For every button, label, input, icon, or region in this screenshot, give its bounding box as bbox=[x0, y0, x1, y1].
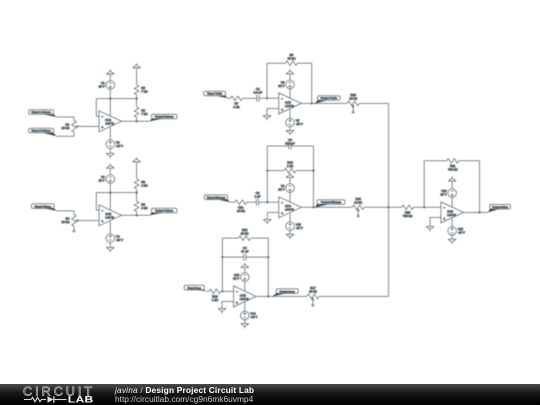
svg-text:1 kΩ: 1 kΩ bbox=[233, 105, 240, 109]
voltage source V2 -15V bbox=[106, 140, 123, 149]
wire R2 top lead bbox=[136, 99, 138, 108]
credit line 2 bbox=[115, 394, 253, 404]
svg-text:500 pF: 500 pF bbox=[285, 141, 295, 145]
svg-text:-15 V: -15 V bbox=[116, 238, 123, 242]
wire feedback top right bbox=[459, 160, 480, 162]
wire V+ power pin bbox=[451, 197, 453, 208]
wire R5 bottom lead bbox=[136, 211, 138, 215]
wire V- power pin bbox=[289, 109, 291, 118]
wire V- power pin bbox=[109, 127, 111, 140]
wiper of R17 bbox=[312, 297, 315, 306]
wire output Mixer bbox=[463, 211, 487, 213]
wire V4 to ground bbox=[109, 243, 111, 248]
wire R3 bottom lead bbox=[136, 95, 138, 99]
potentiometer R19 10k bbox=[352, 197, 364, 210]
ground above R6 bbox=[133, 157, 141, 162]
svg-text:-15 V: -15 V bbox=[250, 315, 257, 319]
wire R18 to bus bbox=[359, 102, 388, 104]
credit line 1 bbox=[115, 385, 254, 395]
svg-text:-15 V: -15 V bbox=[296, 122, 303, 126]
svg-text:Vinput 2 Balance: Vinput 2 Balance bbox=[31, 130, 51, 133]
svg-text:-15 V: -15 V bbox=[296, 226, 303, 230]
junction output/feedback bbox=[136, 214, 138, 216]
wire output Midrange bbox=[301, 206, 352, 208]
potentiometer R1 10k bbox=[61, 120, 76, 132]
svg-text:10 kΩ: 10 kΩ bbox=[287, 57, 296, 61]
svg-text:10 kΩ: 10 kΩ bbox=[237, 209, 246, 213]
wire R6 bottom lead bbox=[136, 189, 138, 193]
junction V3/feedback bbox=[109, 192, 111, 194]
voltage source V4 -15V bbox=[106, 234, 123, 243]
wire up to feedback bbox=[266, 63, 268, 98]
junction output/feedback bbox=[312, 206, 314, 208]
wire wiper to non-inverting input bbox=[78, 125, 99, 127]
wire mixing bus vertical bbox=[388, 103, 390, 296]
svg-text:15 V: 15 V bbox=[278, 188, 284, 192]
capacitor C1 6.8nF bbox=[254, 87, 263, 102]
wire input to R7 bbox=[228, 97, 231, 99]
wire V+ power pin bbox=[109, 99, 111, 118]
svg-text:15 V: 15 V bbox=[99, 179, 105, 183]
wire C1 to inverting input bbox=[259, 97, 279, 99]
flag Voutput Bass bbox=[272, 289, 298, 297]
ground above V13 bbox=[241, 263, 249, 268]
svg-text:10 kΩ: 10 kΩ bbox=[241, 231, 250, 235]
ground at non-inverting input bbox=[263, 220, 271, 225]
potentiometer R4 10k bbox=[61, 215, 76, 227]
ground above V5 bbox=[286, 69, 294, 74]
logo diode bbox=[48, 396, 55, 402]
wire output Treble bbox=[301, 102, 347, 104]
wire R7 to C1 bbox=[242, 97, 256, 99]
wire non-inverting input to ground bbox=[430, 218, 441, 227]
capacitor C4 47nF bbox=[241, 246, 249, 261]
wire R12 branch left bbox=[267, 170, 284, 172]
ground below V10 bbox=[286, 234, 294, 239]
wire R2 bottom lead bbox=[136, 117, 138, 121]
flag Vinput Bass bbox=[184, 285, 206, 291]
wire non-inverting input to ground bbox=[267, 109, 279, 116]
voltage source V13 15V bbox=[233, 273, 249, 282]
wire V+ power pin bbox=[244, 281, 246, 292]
wire feedback to inverting input bbox=[96, 193, 99, 211]
ground above V15 bbox=[448, 177, 456, 182]
voltage source V10 -15V bbox=[286, 222, 303, 231]
svg-text:Voutput Bass: Voutput Bass bbox=[280, 290, 296, 293]
resistor R16 10k bbox=[239, 228, 251, 241]
wire ground to V3 bbox=[109, 168, 111, 175]
svg-text:15 V: 15 V bbox=[99, 85, 105, 89]
wire V16 to ground bbox=[451, 235, 453, 239]
capacitor C2 1nF bbox=[254, 191, 260, 206]
op-amp OA5 LM741 bbox=[234, 286, 256, 307]
ground at non-inverting input bbox=[263, 116, 271, 121]
svg-text:7 kΩ: 7 kΩ bbox=[141, 112, 148, 116]
ground at non-inverting input bbox=[426, 227, 434, 232]
wiper of R18 bbox=[352, 104, 355, 113]
wire input to pot top bbox=[73, 211, 75, 215]
svg-text:Vinput 1 Balance: Vinput 1 Balance bbox=[31, 111, 51, 114]
wire ground to V15 bbox=[451, 181, 453, 189]
potentiometer R17 10k bbox=[307, 286, 319, 299]
junction C4/right vertical bbox=[267, 256, 269, 258]
voltage source V3 15V bbox=[99, 175, 115, 184]
ground above V1 bbox=[106, 70, 114, 75]
wire V6 to ground bbox=[289, 127, 291, 131]
wire R17 to bus bbox=[319, 295, 389, 297]
wire V2 to ground bbox=[109, 149, 111, 154]
svg-text:LM741: LM741 bbox=[105, 122, 115, 126]
wire up to feedback bbox=[266, 146, 268, 202]
junction output/feedback bbox=[311, 102, 313, 104]
svg-text:LAB: LAB bbox=[68, 394, 94, 404]
op-amp OA1 LM741 bbox=[99, 111, 122, 132]
wire V+ power pin bbox=[289, 89, 291, 100]
svg-text:1 kΩ: 1 kΩ bbox=[287, 164, 294, 168]
svg-text:LM741: LM741 bbox=[447, 213, 457, 217]
wire input1 to pot top bbox=[73, 117, 75, 120]
flag Voutput Midrange bbox=[315, 200, 345, 208]
junction V1/feedback bbox=[109, 98, 111, 100]
wire V1 to feedback node bbox=[109, 89, 111, 98]
wire C2 to inverting input bbox=[259, 201, 279, 203]
resistor R20 750k bbox=[402, 205, 414, 218]
wire ground to V5 bbox=[289, 74, 291, 80]
svg-text:47 nF: 47 nF bbox=[241, 249, 249, 253]
junction R3/R2/feedback bbox=[136, 98, 138, 100]
svg-text:-15 V: -15 V bbox=[458, 231, 465, 235]
svg-text:1 kΩ: 1 kΩ bbox=[141, 206, 148, 210]
wire feedback horizontal bbox=[96, 192, 136, 194]
svg-text:10 kΩ: 10 kΩ bbox=[349, 97, 358, 101]
ground below V6 bbox=[286, 131, 294, 136]
op-amp OA6 LM741 bbox=[441, 202, 464, 223]
svg-text:6.8 nF: 6.8 nF bbox=[254, 91, 263, 95]
wire V- power pin bbox=[289, 213, 291, 222]
wire R16 branch right bbox=[251, 237, 269, 239]
svg-text:Voutput Balance: Voutput Balance bbox=[155, 116, 174, 119]
junction R12/right vertical bbox=[312, 170, 314, 172]
svg-text:Voutput Treble: Voutput Treble bbox=[320, 97, 337, 100]
svg-text:15 V: 15 V bbox=[278, 84, 284, 88]
CircuitLab logo bbox=[0, 384, 110, 405]
wire output Volume bbox=[122, 214, 150, 216]
wire up to feedback bbox=[221, 238, 223, 291]
wire R12 branch right bbox=[296, 170, 314, 172]
svg-text:Voutput Midrange: Voutput Midrange bbox=[321, 201, 342, 204]
voltage source V6 -15V bbox=[286, 118, 303, 127]
wire R19 to bus bbox=[364, 206, 388, 208]
wire ground to V1 bbox=[109, 74, 111, 81]
resistor R12 1k bbox=[284, 160, 296, 173]
wire input to R15 bbox=[207, 290, 209, 292]
junction input node bbox=[266, 201, 268, 203]
flag Voutput Balance bbox=[149, 114, 177, 121]
wire feedback up bbox=[423, 161, 425, 208]
wire input horizontal bbox=[56, 210, 74, 212]
svg-text:15 V: 15 V bbox=[440, 193, 446, 197]
wire V+ power pin bbox=[289, 192, 291, 203]
wire feedback left bbox=[267, 62, 285, 64]
wire V10 to ground bbox=[289, 231, 291, 235]
wire R6 top lead bbox=[136, 162, 138, 179]
wire non-inverting input to ground bbox=[222, 302, 234, 309]
wire C4 branch right bbox=[246, 256, 268, 258]
svg-text:Voutput Mixer: Voutput Mixer bbox=[492, 206, 508, 209]
voltage source V5 15V bbox=[278, 80, 294, 89]
flag Voutput Volume bbox=[149, 208, 177, 215]
svg-text:10 kΩ: 10 kΩ bbox=[61, 126, 70, 130]
junction R6/R5/feedback bbox=[136, 192, 138, 194]
wire R5 top lead bbox=[136, 193, 138, 202]
wire feedback right bbox=[297, 62, 311, 64]
flag Vinput 1 Balance bbox=[29, 110, 57, 117]
wire C3 branch right bbox=[291, 145, 313, 147]
wire output Balance bbox=[122, 120, 150, 122]
wire output Bass bbox=[256, 295, 307, 297]
wire V- power pin bbox=[451, 218, 453, 226]
wire feedback horizontal bbox=[96, 98, 136, 100]
wire C3 branch left bbox=[267, 145, 289, 147]
resistor R8 10k bbox=[285, 53, 297, 66]
svg-text:7 kΩ: 7 kΩ bbox=[141, 89, 148, 93]
wire C4 branch left bbox=[222, 256, 243, 258]
voltage source V1 15V bbox=[99, 81, 115, 90]
svg-text:Voutput Volume: Voutput Volume bbox=[155, 210, 174, 213]
junction input node bbox=[266, 97, 268, 99]
resistor R5 1k bbox=[134, 201, 148, 211]
svg-text:1 kΩ: 1 kΩ bbox=[212, 298, 219, 302]
svg-text:10 kΩ: 10 kΩ bbox=[354, 201, 363, 205]
wire bus to R20 bbox=[389, 206, 402, 208]
junction bus/midrange bbox=[387, 206, 389, 208]
wire R11 to C2 bbox=[247, 201, 257, 203]
resistor R6 1k bbox=[134, 179, 148, 189]
ground below V16 bbox=[448, 239, 456, 244]
wire V3 to feedback node bbox=[109, 183, 111, 192]
ground at non-inverting input bbox=[218, 309, 226, 314]
svg-text:Vinput Treble: Vinput Treble bbox=[207, 93, 223, 96]
wire ground to V13 bbox=[244, 268, 246, 273]
wiper of R4 bbox=[75, 219, 78, 222]
wire V14 to ground bbox=[244, 320, 246, 324]
junction C4/left vertical bbox=[221, 256, 223, 258]
op-amp OA4 LM741 bbox=[279, 197, 302, 218]
svg-text:1 nF: 1 nF bbox=[254, 195, 260, 199]
junction output/feedback bbox=[478, 211, 480, 213]
wire input1 horizontal bbox=[57, 116, 74, 118]
wire R16 branch left bbox=[222, 237, 238, 239]
svg-text:Vinput Bass: Vinput Bass bbox=[187, 287, 201, 290]
wire feedback down to output bbox=[479, 161, 481, 213]
svg-text:LM741: LM741 bbox=[285, 208, 295, 212]
wire feedback to inverting input bbox=[96, 99, 99, 117]
wire feedback down to output bbox=[267, 238, 269, 296]
flag Vinput Volume bbox=[32, 204, 57, 211]
capacitor C3 500pF bbox=[285, 138, 295, 149]
svg-text:-15 V: -15 V bbox=[116, 144, 123, 148]
op-amp OA2 LM741 bbox=[99, 205, 122, 226]
resistor R3 7k bbox=[134, 85, 148, 95]
svg-text:750 kΩ: 750 kΩ bbox=[403, 214, 413, 218]
junction input node bbox=[221, 290, 223, 292]
junction output/feedback bbox=[267, 295, 269, 297]
wire R15 to inverting input bbox=[221, 290, 234, 292]
logo resistor squiggle bbox=[24, 397, 67, 401]
svg-text:1 kΩ: 1 kΩ bbox=[141, 183, 148, 187]
junction output/feedback bbox=[136, 120, 138, 122]
svg-text:10 kΩ: 10 kΩ bbox=[309, 290, 318, 294]
voltage source V9 15V bbox=[278, 184, 294, 193]
svg-text:LM741: LM741 bbox=[240, 297, 250, 301]
svg-text:10 kΩ: 10 kΩ bbox=[61, 220, 70, 224]
svg-text:15 V: 15 V bbox=[233, 277, 239, 281]
wire ground to V9 bbox=[289, 177, 291, 183]
wire feedback top left bbox=[424, 160, 447, 162]
ground above V9 bbox=[286, 173, 294, 178]
resistor R15 1k bbox=[209, 289, 221, 302]
resistor R11 10k bbox=[235, 200, 247, 213]
ground below V4 bbox=[106, 247, 114, 252]
wire V- power pin bbox=[244, 302, 246, 311]
wire wiper to non-inverting input bbox=[78, 219, 99, 221]
resistor R21 750k bbox=[447, 159, 459, 172]
flag Voutput Treble bbox=[315, 96, 340, 104]
svg-text:Vinput Volume: Vinput Volume bbox=[34, 205, 51, 208]
flag Vinput Treble bbox=[204, 91, 228, 98]
wire non-inverting input to ground bbox=[267, 212, 278, 219]
wire feedback down to output bbox=[313, 146, 315, 207]
ground below V14 bbox=[241, 324, 249, 329]
svg-text:750 kΩ: 750 kΩ bbox=[448, 168, 458, 172]
ground above R3 bbox=[133, 63, 141, 68]
flag Vinput 2 Balance bbox=[29, 128, 57, 136]
wire input2 horizontal bbox=[57, 135, 74, 137]
resistor R2 7k bbox=[134, 107, 148, 117]
resistor R7 1k bbox=[230, 96, 242, 109]
voltage source V15 15V bbox=[440, 189, 456, 198]
ground above V3 bbox=[106, 164, 114, 169]
wiper of R19 bbox=[357, 208, 360, 217]
open stub below R4 bbox=[73, 226, 75, 232]
op-amp OA3 LM741 bbox=[279, 93, 302, 114]
svg-text:LM741: LM741 bbox=[105, 216, 115, 220]
svg-text:Vinput Midrange: Vinput Midrange bbox=[207, 196, 226, 199]
junction feedback tap bbox=[423, 206, 425, 208]
junction R12/left vertical bbox=[266, 170, 268, 172]
wire V- power pin bbox=[109, 221, 111, 234]
wire feedback down to output bbox=[311, 63, 313, 103]
voltage source V16 -15V bbox=[448, 227, 465, 236]
flag Voutput Mixer bbox=[488, 204, 511, 212]
wire input to R11 bbox=[230, 201, 235, 203]
wire input2 to pot bottom bbox=[73, 132, 75, 136]
svg-text:LM741: LM741 bbox=[285, 104, 295, 108]
footer bar bbox=[0, 384, 540, 405]
ground below V2 bbox=[106, 153, 114, 158]
wire R20 to inverting input bbox=[414, 206, 441, 208]
wire R3 top lead bbox=[136, 68, 138, 85]
voltage source V14 -15V bbox=[241, 311, 258, 320]
wire V+ power pin bbox=[109, 193, 111, 212]
wiper of R1 bbox=[75, 125, 78, 128]
flag Vinput Midrange bbox=[204, 195, 230, 202]
potentiometer R18 10k bbox=[347, 93, 359, 106]
